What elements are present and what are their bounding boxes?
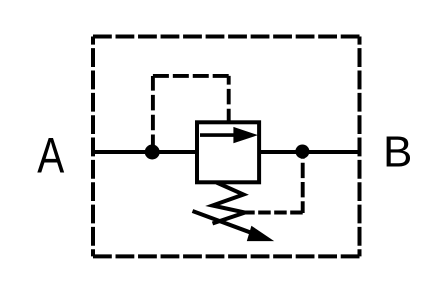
junction node at A side xyxy=(145,145,160,160)
svg-text:B: B xyxy=(383,128,412,177)
main flow line A to B xyxy=(93,150,360,154)
pilot drain horizontal segment to spring xyxy=(245,211,303,215)
pilot line vertical segment from node A xyxy=(151,76,155,152)
valve body box xyxy=(197,122,259,182)
junction node at B side xyxy=(295,145,309,159)
flow arrow head inside valve xyxy=(233,127,258,143)
adjustment arrow shaft xyxy=(193,211,259,235)
pilot drain vertical segment from node B xyxy=(301,152,305,214)
flow arrow shaft inside valve xyxy=(200,133,236,137)
enclosure dashed box top edge xyxy=(93,35,360,39)
svg-text:A: A xyxy=(37,127,65,183)
pilot line top horizontal segment xyxy=(153,74,229,78)
adjustment arrow head xyxy=(247,226,274,241)
enclosure dashed box bottom edge xyxy=(93,254,360,258)
pilot line vertical segment into valve top xyxy=(227,76,231,122)
enclosure dashed box right edge xyxy=(358,37,362,257)
spring xyxy=(213,183,246,224)
enclosure dashed box left edge xyxy=(91,37,95,257)
